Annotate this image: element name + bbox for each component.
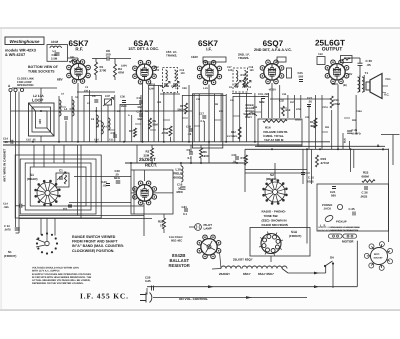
midband short horizontals: [59, 106, 66, 108]
field coil L10: [181, 166, 183, 182]
trimmer C37: [105, 99, 112, 105]
resistor R6A 470M: [169, 126, 172, 136]
switch S4: [325, 261, 333, 266]
wire V1 drop: [77, 83, 79, 142]
bottom wire lower: [153, 297, 307, 299]
wire volume to phono verticals: [302, 149, 304, 184]
tube V1 6SK7 RF: [67, 60, 91, 84]
wire routing box B: [20, 159, 96, 214]
cap C13 562: [139, 101, 143, 103]
wire routing box S3: [250, 228, 310, 257]
wire coil box to tube: [68, 57, 79, 59]
cap C17 0.1: [202, 116, 206, 118]
motor connector: [328, 234, 342, 238]
cap C18 .05: [189, 129, 193, 131]
cap C21 560: [332, 187, 336, 189]
phono box: [317, 184, 389, 231]
midband horizontal wires: [12, 87, 57, 89]
page left edge: [0, 28, 3, 310]
right stub rail wire: [392, 135, 394, 166]
switch S2 rear wafer: [263, 180, 288, 205]
label L2 13A LOOP: [32, 94, 44, 103]
switch S1 rear wafer: [35, 180, 61, 206]
phono jack: [337, 204, 342, 209]
heater return wire: [282, 269, 288, 274]
wire C26 R22 drops: [350, 149, 352, 172]
bus B+ lower wire: [3, 144, 302, 146]
trimmer C1 box: [56, 173, 69, 187]
cap C24 40MFD: [347, 131, 352, 133]
motor socket: [371, 248, 388, 265]
wire rect drops: [143, 203, 145, 236]
wire to C30: [344, 57, 360, 59]
bus B+ upper wire: [3, 141, 330, 143]
antenna coil L1 box: [47, 45, 68, 62]
resistor R6 1200: [200, 148, 203, 158]
wire routing horizontals: [74, 176, 131, 178]
pilot lamp: [195, 224, 202, 231]
coil L5: [96, 115, 98, 127]
heater chain coils: [221, 266, 241, 269]
label 25Z6GT RECT: [139, 157, 157, 168]
wire box V4 grid: [277, 57, 286, 62]
wire plug drops: [146, 288, 148, 295]
cap C9 0.1: [189, 152, 193, 154]
trimmer arrows: [103, 98, 114, 107]
output transformer T1: [358, 77, 360, 92]
tube V4 6SQ7: [260, 60, 284, 84]
resistor R3 10M: [134, 128, 137, 137]
wire S2 horizontals: [245, 169, 307, 171]
speaker: [370, 74, 382, 99]
tube label 6SQ7: [254, 39, 292, 52]
midband vertical wires: [10, 92, 12, 142]
wire V2 drop: [142, 83, 144, 142]
coil L7: [101, 122, 103, 134]
tube label 25L6GT: [315, 38, 345, 52]
resistor R2 22M: [151, 148, 154, 158]
resistor R7 5600: [185, 103, 188, 114]
wire routing box A: [15, 155, 101, 218]
wire rect extra: [136, 145, 138, 163]
Westinghouse logo: [5, 37, 44, 45]
wire box V3 cathode: [192, 94, 222, 148]
osc coil L6: [108, 118, 110, 130]
cap C23 box: [287, 68, 292, 78]
wire box V5 grid: [341, 56, 353, 63]
switch S1 front wafer: [56, 242, 58, 244]
cap C16 30MFD: [181, 187, 186, 189]
wire routing box C: [25, 163, 91, 210]
page top edge: [0, 27, 400, 28]
cap C41 0.1: [184, 209, 188, 211]
model numbers text: [5, 49, 36, 58]
wire routing drops: [33, 145, 35, 167]
wire speaker VC: [382, 85, 388, 87]
switch S3 front socket: [261, 234, 281, 254]
resistor R1 2700: [95, 62, 98, 75]
bus B mid wire: [125, 162, 245, 164]
bus AVC wire: [11, 110, 193, 112]
label CLOSE LINK FOR LOOP OPERATION: [17, 77, 34, 88]
arrowhead lower: [246, 296, 252, 299]
right rail wire: [388, 149, 390, 242]
cap C38: [113, 135, 117, 137]
loop antenna L2: [29, 103, 55, 136]
tube V3 6SK7 IF: [197, 60, 221, 84]
ant terminal G2: [20, 88, 23, 91]
wire routing box D: [30, 167, 86, 206]
resistor R12 2.2MEG: [238, 127, 241, 139]
resistor R18: [282, 106, 285, 116]
coil L4 cluster: [59, 100, 61, 116]
resistor R19 470M: [316, 155, 319, 167]
page bottom edge: [0, 309, 400, 310]
wire S3 drop: [270, 256, 272, 262]
volume control R14: [258, 119, 302, 146]
wire box v3 top pins: [203, 57, 226, 62]
resistor R28: [163, 218, 166, 229]
wire V5 drop: [337, 85, 339, 150]
resistor R right of coil box: [69, 60, 81, 63]
ant terminal A: [9, 88, 12, 91]
tube label 6SK7 IF: [198, 39, 219, 52]
ant terminal G1: [14, 88, 17, 91]
cap C26 .0025: [364, 187, 368, 189]
bottom wire upper: [147, 286, 357, 288]
wire V3 drop: [208, 85, 210, 142]
wire rect box: [131, 170, 173, 214]
cap C20 .05: [235, 157, 239, 159]
resistor R4 47M: [114, 64, 117, 77]
resistor R16 470M: [330, 96, 333, 108]
cap C36 1500: [122, 101, 126, 103]
bus right upper wire: [255, 145, 385, 147]
wire S1 front drops: [40, 218, 42, 235]
bus right stub wire: [381, 134, 400, 136]
bus right lower wire: [245, 148, 389, 150]
resistor R15: [245, 155, 248, 165]
cap C6: [94, 100, 98, 102]
resistor R13: [314, 118, 317, 128]
note bottom view of tube sockets: [28, 65, 58, 74]
bus163 junction dots: [130, 162, 132, 164]
cap C28 560: [139, 114, 143, 116]
resistor R5 56M: [149, 118, 152, 129]
cap C22 box: [317, 57, 325, 65]
arrowhead upper: [208, 285, 214, 288]
AC plug: [140, 293, 152, 303]
cap C34 .0075: [15, 228, 20, 230]
wire S2 drops: [244, 149, 246, 192]
tube label 6SA7: [128, 39, 159, 51]
pickup: [324, 214, 334, 223]
wire arc jumper to volume: [246, 113, 257, 117]
tube V5 25L6GT: [325, 60, 349, 84]
label 8X42B ballast resistor: [169, 253, 190, 268]
tube V6 25Z6GT rectifier: [133, 181, 157, 205]
ballast tube 8X42B: [197, 235, 221, 259]
tube V2 6SA7: [133, 60, 157, 84]
wire V4 drop: [271, 83, 273, 118]
tube label 6SK7 RF: [68, 39, 89, 52]
